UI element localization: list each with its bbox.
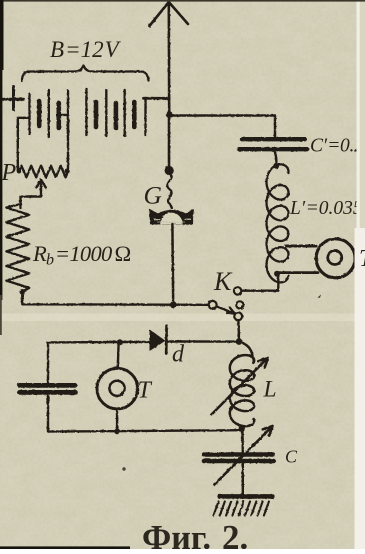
svg-text:Фиг.: Фиг. (142, 518, 211, 549)
battery B long plate 1 (28, 94, 30, 134)
node: coil L' bottom dot (274, 271, 280, 277)
node: coil L' top dot (273, 163, 279, 169)
battery B short plate 5 (132, 102, 137, 127)
potentiometer P wiper arrow (21, 180, 46, 208)
node: galvanometer top dot (165, 166, 174, 175)
scan artifact: bottom left black bar (0, 546, 130, 549)
switch K contact ring middle (236, 301, 243, 308)
galvanometer G squiggle lead (167, 174, 171, 208)
brace over battery (22, 66, 149, 82)
wire: node A to C' capacitor branch (169, 116, 275, 138)
scan artifact: fly speck lower left (122, 467, 125, 470)
ground bar (220, 494, 272, 499)
switch K contact ring left (209, 301, 217, 309)
node A junction dot (battery/C' branch) (166, 111, 173, 118)
wire: coil L bottom down to variable capacitor C (241, 429, 244, 452)
variable inductor L arrow (212, 358, 269, 415)
node B junction dot (diode rail / L top) (236, 338, 243, 345)
potentiometer P zigzag (19, 166, 68, 178)
ground bar left dot (217, 494, 222, 499)
wire: battery tap stub between plates (59, 114, 68, 116)
switch K contact ring top-right (234, 287, 241, 294)
svg-text:T: T (138, 378, 153, 404)
battery minus terminal bar / wire to main vertical (144, 97, 170, 100)
svg-text:2.: 2. (222, 518, 248, 549)
svg-text:T′: T′ (359, 246, 365, 272)
telephone T2 outer circle (316, 239, 355, 278)
wire: capacitor C down to ground (242, 464, 244, 495)
node: rail junction dot below meter (170, 301, 177, 308)
variable capacitor C top plate (204, 452, 274, 457)
scan artifact: left edge black border (0, 0, 2, 300)
wire: meter bottom down to rail junction (171, 224, 174, 305)
node: dot above telephone T (117, 339, 123, 345)
capacitor C' top plate (242, 137, 305, 141)
node: P right end junction dot (65, 168, 70, 173)
wire: antenna vertical down to node A (168, 2, 171, 116)
wire: stub from battery plus plate down-left to potentiometer P (18, 118, 29, 171)
battery B long plate 7 (144, 98, 146, 135)
battery B short plate 1 (37, 101, 42, 126)
svg-text:B=12V: B=12V (50, 37, 122, 62)
wire: diode to node B (167, 340, 237, 343)
battery B short plate 4 (114, 103, 119, 128)
wire: telephone T bottom to bottom rail (116, 409, 118, 432)
scan artifact: pale horizontal band (0, 314, 365, 322)
battery B long plate 6 (123, 90, 125, 136)
telephone T inner circle (109, 381, 124, 396)
svg-text:L: L (263, 377, 277, 403)
ground bar right dot (269, 494, 274, 499)
svg-text:L′=0.035: L′=0.035 (289, 198, 363, 219)
inductor L coil loops (230, 355, 254, 426)
node: coil L bottom dot (239, 426, 245, 432)
battery B short plate 2 (56, 103, 61, 128)
battery B long plate 2 (48, 90, 50, 137)
telephone T2 inner circle (328, 251, 342, 265)
ground hatching (214, 502, 269, 516)
switch K contact ring bottom (234, 312, 242, 320)
svg-text:C: C (285, 447, 298, 467)
wire: node B into coil L top (239, 342, 253, 356)
wire: top rail of detector loop (left corner to diode) (48, 342, 149, 384)
diode d cathode bar (165, 326, 168, 354)
scan artifact: top edge dark line (0, 0, 365, 2)
battery B long plate 4 (85, 89, 87, 135)
wire: Rb bottom to horizontal rail (22, 292, 209, 305)
wire: down to telephone T (117, 342, 120, 368)
scan artifact: white margin right lower (355, 228, 365, 549)
svg-text:P: P (1, 160, 17, 186)
battery B short plate 3 (94, 102, 99, 127)
galvanometer G meter body (149, 209, 194, 225)
battery B long plate 3 (67, 91, 69, 137)
blocking capacitor bottom plate (20, 390, 76, 395)
wire: L' bottom lead to telephone T2 (278, 271, 318, 274)
variable capacitor C bottom plate (204, 459, 274, 464)
capacitor C' bottom plate (239, 147, 307, 151)
wire: switch bottom contact down to node B (237, 320, 240, 339)
node: P left end dot (17, 169, 21, 173)
antenna arrow (149, 2, 188, 26)
wire: L' tap upper lead to telephone T2 (286, 245, 316, 248)
inductor L' coil loops (267, 164, 289, 282)
scan artifact: tan margin right of gutter (360, 0, 365, 229)
scan artifact: ink speck near switch (318, 295, 322, 298)
battery B long plate 5 (105, 90, 107, 136)
svg-text:K: K (213, 267, 233, 296)
resistor Rb zigzag (6, 204, 29, 292)
scan artifact: white gutter line top right (357, 0, 360, 229)
wire: battery tap down to P right end (67, 115, 69, 171)
node: Rb bottom dot (20, 289, 26, 295)
svg-text:d: d (172, 342, 185, 368)
blocking capacitor top plate (20, 383, 76, 388)
wire: C' bottom plate to coil L' top (275, 152, 277, 166)
telephone T outer circle (97, 368, 138, 409)
wire: coil L' bottom down and left to switch contact (242, 274, 279, 291)
diode d triangle (150, 330, 166, 352)
node: dot below telephone T (114, 429, 120, 435)
switch K blade arrow (217, 307, 235, 314)
variable capacitor C arrow (215, 426, 273, 485)
wire: node A down to galvanometer node (168, 114, 171, 168)
battery plus terminal sign (3, 87, 24, 110)
svg-text:G: G (144, 181, 162, 210)
wire: capacitor bottom to bottom rail corner (48, 395, 242, 432)
